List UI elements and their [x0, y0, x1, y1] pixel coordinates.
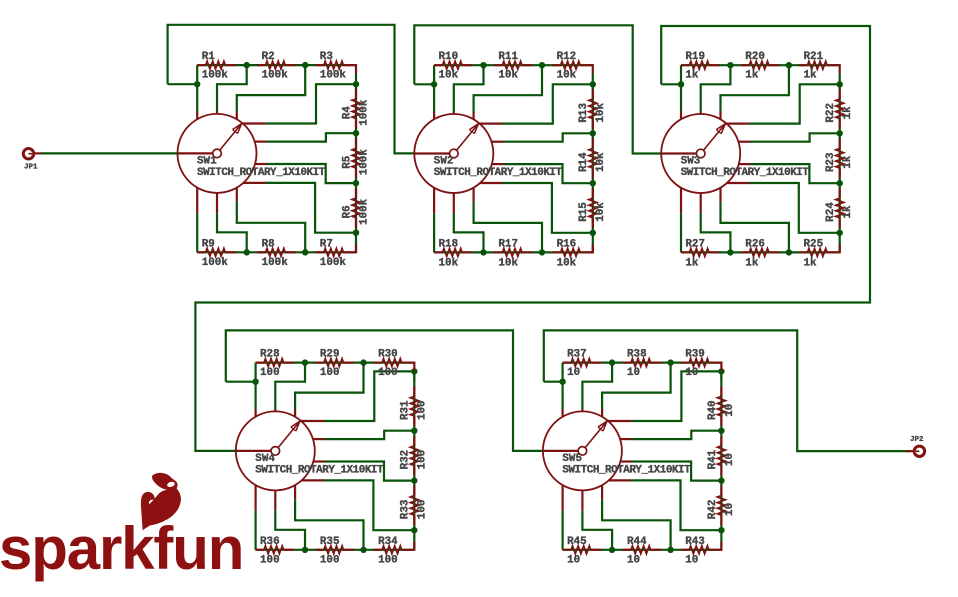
- switch SW4 pin 6: [313, 460, 324, 462]
- switch SW1 bottom pin 10: [196, 188, 198, 214]
- junction: [244, 249, 250, 255]
- junction: [667, 547, 673, 553]
- svg-text:100: 100: [378, 555, 398, 567]
- wire SW3 tap1: [701, 65, 731, 111]
- switch SW5 bottom pin 9: [581, 490, 583, 510]
- svg-text:10: 10: [724, 503, 736, 516]
- svg-text:SW4: SW4: [255, 453, 275, 465]
- svg-text:JP1: JP1: [24, 164, 38, 172]
- junction: [727, 249, 733, 255]
- svg-text:10k: 10k: [439, 257, 459, 269]
- wire SW3 tap0 to R19: [680, 65, 682, 84]
- svg-text:10: 10: [685, 555, 698, 567]
- switch SW5 pin 7: [609, 479, 631, 481]
- wire SW2 tap3: [503, 84, 593, 123]
- resistor R9 100k: [197, 251, 206, 253]
- svg-text:10: 10: [567, 367, 580, 379]
- svg-text:SWITCH_ROTARY_1X10KIT: SWITCH_ROTARY_1X10KIT: [434, 167, 563, 179]
- resistor R37 10: [563, 362, 572, 364]
- rotary switch SW2 body: [414, 114, 493, 193]
- wire SW2 tap5: [503, 164, 593, 183]
- switch SW4 top pin 2: [274, 409, 276, 411]
- svg-text:100k: 100k: [358, 149, 370, 176]
- wire R21 to column: [838, 65, 840, 73]
- svg-text:R42: R42: [707, 500, 719, 520]
- svg-text:R11: R11: [498, 51, 518, 63]
- junction: [353, 230, 359, 236]
- switch SW5 wiper arrow: [585, 421, 607, 447]
- switch SW2 bottom pin 8: [473, 188, 475, 202]
- junction: [539, 62, 545, 68]
- wire SW4 top row net: [256, 362, 415, 364]
- switch SW5 pin 4 (wiper row): [607, 420, 631, 422]
- switch SW3 bottom pin 9: [700, 193, 702, 213]
- resistor R11 10k: [494, 64, 502, 66]
- svg-text:1k: 1k: [685, 70, 699, 82]
- svg-text:100k: 100k: [262, 70, 289, 82]
- resistor R39 10: [681, 362, 690, 364]
- svg-text:R14: R14: [578, 152, 590, 172]
- svg-text:R34: R34: [378, 536, 398, 548]
- junction: [411, 477, 417, 483]
- rotary switch SW1 body: [178, 114, 257, 193]
- wire SW3 top rail: [195, 26, 870, 451]
- switch SW2 pin 4 (wiper row): [479, 122, 503, 124]
- wire R30 to column: [412, 363, 414, 371]
- switch SW4 pole pivot: [236, 450, 271, 452]
- svg-text:10: 10: [724, 453, 736, 466]
- svg-text:R29: R29: [320, 348, 340, 360]
- svg-text:SWITCH_ROTARY_1X10KIT: SWITCH_ROTARY_1X10KIT: [197, 167, 326, 179]
- junction: [590, 180, 596, 186]
- switch SW4 pin 7: [302, 479, 324, 481]
- svg-text:R8: R8: [262, 239, 275, 251]
- wire SW4 tap0 to R28: [255, 363, 257, 382]
- connector JP1: [33, 152, 41, 154]
- wire SW2 tap1: [454, 65, 484, 111]
- junction: [718, 428, 724, 434]
- svg-text:10k: 10k: [439, 70, 459, 82]
- svg-text:R9: R9: [202, 239, 215, 251]
- wire SW1 tap0 to R1: [196, 65, 198, 84]
- switch SW2 top pin 2: [453, 112, 455, 114]
- svg-text:10k: 10k: [595, 202, 607, 222]
- wire R7 to column: [354, 244, 356, 252]
- svg-text:R4: R4: [341, 106, 353, 120]
- switch SW2 pin 6: [492, 163, 503, 165]
- resistor R34 100: [374, 549, 382, 551]
- resistor R14 10k: [592, 138, 594, 148]
- svg-text:100k: 100k: [320, 257, 347, 269]
- svg-text:R32: R32: [400, 450, 412, 470]
- resistor R31 100: [413, 386, 415, 396]
- resistor R36 100: [256, 549, 264, 551]
- svg-text:R27: R27: [685, 239, 705, 251]
- junction: [590, 230, 596, 236]
- svg-text:100: 100: [378, 367, 398, 379]
- wire SW5 right column net: [720, 370, 722, 549]
- svg-text:1k: 1k: [842, 155, 854, 169]
- svg-text:SWITCH_ROTARY_1X10KIT: SWITCH_ROTARY_1X10KIT: [255, 465, 384, 477]
- svg-text:R15: R15: [578, 202, 590, 222]
- svg-text:R25: R25: [804, 239, 824, 251]
- wire SW3 tap8: [701, 213, 731, 252]
- svg-text:R39: R39: [685, 348, 705, 360]
- svg-text:R22: R22: [825, 103, 837, 123]
- resistor R41 10: [720, 436, 722, 446]
- switch SW4 bottom pin 10: [255, 485, 257, 511]
- svg-text:100: 100: [320, 555, 340, 567]
- svg-text:100k: 100k: [358, 198, 370, 225]
- svg-text:R17: R17: [498, 239, 518, 251]
- wire SW4 tap1: [275, 363, 305, 409]
- wire SW1 tap2: [237, 65, 305, 111]
- wire SW4 tap3: [324, 371, 414, 421]
- switch SW3 wiper arrow: [704, 124, 726, 150]
- switch SW3 top pin 3: [719, 112, 721, 120]
- switch SW4 wiper arrow: [278, 421, 300, 447]
- svg-text:1k: 1k: [745, 70, 759, 82]
- wire SW3 top row net: [681, 64, 840, 66]
- junction: [411, 368, 417, 374]
- svg-text:R16: R16: [557, 239, 577, 251]
- svg-text:10k: 10k: [498, 70, 518, 82]
- svg-text:R36: R36: [260, 536, 280, 548]
- wire SW3 tap0 rail link: [661, 83, 681, 85]
- switch SW5 pin 5: [620, 438, 632, 440]
- svg-text:10k: 10k: [498, 257, 518, 269]
- wire SW2 top rail: [414, 25, 661, 153]
- svg-text:100k: 100k: [320, 70, 347, 82]
- wire R3 to column: [354, 65, 356, 73]
- rotary switch SW3 body: [661, 114, 740, 193]
- wire SW5 tap2: [602, 363, 671, 409]
- svg-text:100: 100: [320, 367, 340, 379]
- resistor R23 1k: [839, 138, 841, 148]
- resistor R24 1k: [839, 188, 841, 198]
- svg-text:100: 100: [417, 450, 429, 470]
- junction: [252, 379, 258, 385]
- wire R43 to column: [719, 542, 721, 550]
- svg-text:SWITCH_ROTARY_1X10KIT: SWITCH_ROTARY_1X10KIT: [681, 167, 810, 179]
- svg-text:R24: R24: [825, 202, 837, 222]
- wire SW3 tap2: [721, 65, 789, 111]
- wire SW1 pin1 top: [196, 84, 198, 111]
- wire SW1 tap3: [266, 84, 356, 123]
- junction: [411, 527, 417, 533]
- switch SW4 pin 4 (wiper row): [300, 420, 324, 422]
- svg-text:R35: R35: [320, 536, 340, 548]
- switch SW2 wiper arrow: [457, 124, 479, 150]
- switch SW3 pin 6: [739, 163, 750, 165]
- junction: [302, 547, 308, 553]
- svg-text:100k: 100k: [202, 257, 229, 269]
- resistor R10 10k: [434, 64, 442, 66]
- resistor R8 100k: [257, 251, 265, 253]
- svg-text:R41: R41: [707, 449, 719, 469]
- wire SW2 tap0 rail link: [414, 83, 434, 85]
- svg-text:10: 10: [685, 367, 698, 379]
- junction: [353, 180, 359, 186]
- switch SW4 bottom pin 8: [294, 485, 296, 499]
- switch SW5 pin 6: [621, 460, 632, 462]
- svg-text:R44: R44: [627, 536, 647, 548]
- switch SW2 pin 5: [492, 141, 504, 143]
- switch SW2 pin 7: [480, 182, 502, 184]
- svg-text:1k: 1k: [842, 205, 854, 219]
- svg-text:100: 100: [260, 555, 280, 567]
- wire SW2 tap9: [433, 213, 435, 252]
- junction: [590, 130, 596, 136]
- wire SW5 tap6: [630, 480, 721, 530]
- resistor R12 10k: [552, 64, 561, 66]
- wire SW1 tap8: [217, 213, 247, 252]
- junction: [559, 379, 565, 385]
- switch SW1 pin 6: [255, 163, 266, 165]
- switch SW3 pole pivot: [661, 152, 696, 154]
- junction: [609, 359, 615, 365]
- wire SW3 tap3: [749, 84, 839, 123]
- wire SW4 pin1 top: [255, 382, 257, 409]
- svg-text:10k: 10k: [595, 103, 607, 123]
- switch SW2 bottom pin 10: [433, 188, 435, 214]
- wire SW1 right column net: [355, 73, 357, 252]
- resistor R45 10: [563, 549, 572, 551]
- wire SW4 tap0 rail link: [226, 381, 256, 383]
- junction: [727, 62, 733, 68]
- junction: [353, 130, 359, 136]
- junction: [718, 477, 724, 483]
- resistor R32 100: [413, 436, 415, 446]
- wire SW4 tap5: [324, 462, 414, 481]
- connector JP2: [906, 450, 914, 452]
- svg-text:R1: R1: [202, 51, 216, 63]
- junction: [480, 249, 486, 255]
- junction: [837, 130, 843, 136]
- svg-text:10k: 10k: [557, 70, 577, 82]
- junction: [302, 249, 308, 255]
- resistor R1 100k: [197, 64, 206, 66]
- svg-text:R28: R28: [260, 348, 280, 360]
- wire R25 to column: [838, 244, 840, 252]
- resistor R38 10: [623, 362, 632, 364]
- resistor R35 100: [316, 549, 324, 551]
- wire R39 to column: [719, 363, 721, 371]
- resistor R26 1k: [741, 251, 749, 253]
- junction: [353, 81, 359, 87]
- switch SW4 top pin 1: [255, 409, 257, 417]
- wire SW2 bottom row net: [434, 251, 593, 253]
- resistor R42 10: [720, 486, 722, 496]
- wire SW1 tap0 rail link: [168, 83, 198, 85]
- wire SW5 tap3: [631, 371, 721, 421]
- wire R12 to column: [591, 65, 593, 73]
- junction: [590, 81, 596, 87]
- wire SW3 bottom row net: [681, 251, 840, 253]
- junction: [302, 62, 308, 68]
- svg-text:R13: R13: [578, 103, 590, 123]
- resistor R29 100: [316, 362, 324, 364]
- wire SW2 tap6: [502, 183, 593, 233]
- wire SW3 tap7: [721, 202, 789, 253]
- resistor R16 10k: [552, 251, 561, 253]
- wire SW5 tap0 rail link: [544, 381, 563, 383]
- junction: [786, 249, 792, 255]
- wire SW4 top rail: [226, 330, 543, 451]
- resistor R13 10k: [592, 89, 594, 99]
- wire SW2 tap4: [503, 133, 593, 141]
- svg-text:R43: R43: [685, 536, 705, 548]
- resistor R30 100: [374, 362, 382, 364]
- wire SW2 top row net: [434, 64, 593, 66]
- switch SW3 bottom pin 10: [680, 188, 682, 214]
- svg-text:JP2: JP2: [910, 436, 924, 444]
- junction: [480, 62, 486, 68]
- junction: [837, 230, 843, 236]
- wire R16 to column: [591, 244, 593, 252]
- resistor R22 1k: [839, 89, 841, 99]
- junction: [718, 368, 724, 374]
- svg-text:1k: 1k: [842, 106, 854, 120]
- switch SW3 top pin 2: [700, 112, 702, 114]
- wire SW4 bottom row net: [256, 549, 415, 551]
- wire SW3 tap9: [680, 213, 682, 252]
- sparkfun logo flame icon: [152, 473, 178, 490]
- wire SW4 tap7: [295, 499, 363, 550]
- svg-text:10k: 10k: [557, 257, 577, 269]
- svg-text:100k: 100k: [202, 70, 229, 82]
- svg-text:100: 100: [260, 367, 280, 379]
- resistor R4 100k: [355, 89, 357, 99]
- svg-text:R18: R18: [439, 239, 459, 251]
- resistor R18 10k: [434, 251, 442, 253]
- resistor R5 100k: [355, 138, 357, 148]
- wire SW4 tap6: [323, 480, 414, 530]
- resistor R25 1k: [799, 251, 808, 253]
- junction: [667, 359, 673, 365]
- resistor R20 1k: [741, 64, 749, 66]
- wire SW3 right column net: [839, 73, 841, 252]
- svg-text:SW1: SW1: [197, 155, 217, 167]
- resistor R6 100k: [355, 188, 357, 198]
- switch SW4 bottom pin 9: [274, 490, 276, 510]
- resistor R33 100: [413, 486, 415, 496]
- svg-text:R30: R30: [378, 348, 398, 360]
- wire SW1 tap1: [217, 65, 247, 111]
- svg-text:10: 10: [627, 367, 640, 379]
- wire SW5 tap0 to R37: [561, 363, 563, 382]
- switch SW5 bottom pin 10: [561, 485, 563, 511]
- wire SW2 tap0 to R10: [433, 65, 435, 84]
- switch SW3 pin 4 (wiper row): [726, 122, 750, 124]
- switch SW1 top pin 1: [196, 112, 198, 120]
- wire SW5 tap4: [631, 431, 721, 439]
- svg-text:R31: R31: [400, 400, 412, 420]
- svg-text:1k: 1k: [804, 257, 818, 269]
- wire SW2 tap7: [474, 202, 542, 253]
- switch SW1 top pin 3: [236, 112, 238, 120]
- wire SW4 tap4: [324, 431, 414, 439]
- svg-text:sparkfun: sparkfun: [0, 515, 243, 582]
- svg-text:R19: R19: [685, 51, 705, 63]
- resistor R28 100: [256, 362, 264, 364]
- switch SW5 bottom pin 8: [601, 485, 603, 499]
- wire SW2 tap2: [474, 65, 542, 111]
- wire SW4 tap8: [275, 511, 305, 550]
- switch SW1 pin 7: [243, 182, 265, 184]
- wire SW5 bottom row net: [563, 549, 722, 551]
- switch SW1 pole pivot: [178, 152, 213, 154]
- wire SW1 tap7: [237, 202, 305, 253]
- svg-text:R10: R10: [439, 51, 459, 63]
- switch SW5 pole pivot: [543, 450, 578, 452]
- svg-text:R21: R21: [804, 51, 824, 63]
- switch SW2 top pin 1: [433, 112, 435, 120]
- resistor R7 100k: [315, 251, 323, 253]
- svg-text:R26: R26: [745, 239, 765, 251]
- svg-text:R5: R5: [341, 156, 353, 169]
- rotary switch SW4 body: [236, 411, 315, 490]
- svg-text:100k: 100k: [262, 257, 289, 269]
- svg-text:R6: R6: [341, 205, 353, 218]
- svg-text:100k: 100k: [358, 99, 370, 126]
- svg-text:R23: R23: [825, 152, 837, 172]
- svg-text:R40: R40: [707, 400, 719, 420]
- svg-text:10: 10: [724, 404, 736, 417]
- wire SW2 right column net: [592, 73, 594, 252]
- switch SW3 bottom pin 8: [719, 188, 721, 202]
- switch SW4 top pin 3: [294, 409, 296, 417]
- junction: [837, 180, 843, 186]
- wire SW4 tap9: [255, 511, 257, 550]
- svg-text:SW3: SW3: [681, 156, 701, 168]
- svg-text:R3: R3: [320, 51, 333, 63]
- junction: [431, 81, 437, 87]
- switch SW1 wiper arrow: [220, 124, 242, 150]
- svg-text:R38: R38: [627, 348, 647, 360]
- switch SW5 top pin 3: [601, 409, 603, 417]
- wire SW3 tap6: [749, 183, 840, 233]
- wire SW2 pin1 top: [433, 84, 435, 111]
- resistor R21 1k: [799, 64, 808, 66]
- switch SW3 pin 5: [738, 141, 750, 143]
- svg-text:1k: 1k: [745, 257, 759, 269]
- switch SW1 pin 5: [255, 141, 267, 143]
- svg-text:SWITCH_ROTARY_1X10KIT: SWITCH_ROTARY_1X10KIT: [562, 465, 691, 477]
- resistor R2 100k: [257, 64, 265, 66]
- junction: [678, 81, 684, 87]
- wire R34 to column: [412, 542, 414, 550]
- wire SW3 tap4: [750, 133, 840, 141]
- resistor R15 10k: [592, 188, 594, 198]
- svg-text:R45: R45: [567, 536, 587, 548]
- switch SW2 bottom pin 9: [453, 193, 455, 213]
- wire SW5 pin1 top: [561, 382, 563, 409]
- switch SW5 top pin 1: [561, 409, 563, 417]
- junction: [360, 359, 366, 365]
- resistor R43 10: [681, 549, 690, 551]
- wire SW1 tap4: [266, 133, 356, 141]
- junction: [718, 527, 724, 533]
- svg-text:10k: 10k: [595, 152, 607, 172]
- wire SW5 tap8: [582, 511, 612, 550]
- resistor R3 100k: [315, 64, 323, 66]
- svg-text:SW5: SW5: [562, 453, 582, 465]
- wire SW1 tap5: [266, 164, 356, 183]
- junction: [194, 81, 200, 87]
- resistor R27 1k: [681, 251, 689, 253]
- wire SW5 tap1: [582, 363, 612, 409]
